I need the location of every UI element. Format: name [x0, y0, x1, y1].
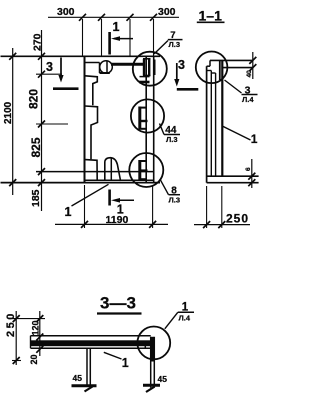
svg-text:1–1: 1–1	[199, 8, 223, 24]
svg-text:45: 45	[73, 373, 83, 383]
svg-text:Л.3: Л.3	[169, 195, 181, 204]
svg-text:1: 1	[113, 20, 120, 34]
svg-text:820: 820	[27, 89, 41, 109]
svg-text:3: 3	[178, 58, 185, 72]
svg-text:3: 3	[46, 60, 53, 74]
svg-text:1: 1	[65, 205, 72, 219]
svg-text:20: 20	[29, 354, 39, 364]
svg-text:250: 250	[226, 212, 249, 226]
svg-text:6: 6	[245, 167, 252, 171]
svg-text:120: 120	[30, 320, 40, 335]
svg-text:Л.3: Л.3	[169, 40, 181, 49]
svg-text:3—3: 3—3	[100, 294, 136, 313]
svg-text:270: 270	[32, 33, 44, 51]
svg-text:300: 300	[158, 6, 176, 18]
svg-text:300: 300	[57, 6, 75, 18]
svg-text:Л.3: Л.3	[166, 135, 178, 144]
svg-text:1: 1	[251, 132, 258, 146]
svg-text:Л.4: Л.4	[179, 314, 191, 323]
svg-text:45: 45	[158, 374, 168, 384]
svg-text:Л.4: Л.4	[242, 95, 254, 104]
svg-text:825: 825	[29, 137, 43, 157]
svg-text:2100: 2100	[3, 101, 14, 124]
svg-text:250: 250	[5, 311, 17, 337]
svg-text:1: 1	[117, 203, 124, 217]
svg-text:185: 185	[30, 189, 42, 207]
svg-text:40: 40	[246, 70, 253, 78]
svg-text:1: 1	[182, 302, 189, 314]
svg-text:1: 1	[122, 356, 129, 370]
